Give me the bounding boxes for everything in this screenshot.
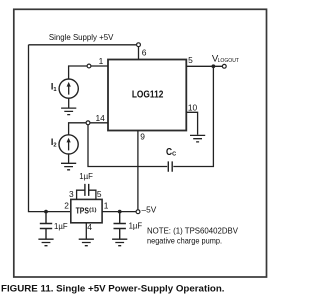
svg-text:1µF: 1µF (129, 221, 143, 230)
wire pin 6 (138, 47, 140, 60)
current source I1 (51, 79, 78, 98)
op-amp U1 LOG112 (108, 60, 186, 131)
svg-text:1: 1 (99, 56, 104, 66)
svg-text:3: 3 (69, 189, 74, 199)
node junction right cap (118, 210, 122, 214)
capacitor C2 1uF left (40, 214, 68, 239)
svg-text:NOTE: (1) TPS60402DBV: NOTE: (1) TPS60402DBV (147, 226, 239, 235)
wire top supply rail (29, 44, 137, 46)
svg-text:LOGOUT: LOGOUT (218, 58, 240, 64)
svg-text:5: 5 (188, 55, 193, 65)
ground pin 10 (190, 135, 205, 142)
terminal Vlogout (222, 64, 226, 68)
ground C2 (38, 239, 53, 246)
svg-text:LOG112: LOG112 (132, 90, 164, 101)
svg-text:TPS: TPS (76, 206, 90, 215)
node junction left cap (44, 210, 48, 214)
ground TPS pin 4 (79, 239, 94, 246)
wire TPS pin 3 stub (77, 190, 85, 199)
transistor U2 TPS charge pump box (71, 199, 102, 222)
figure frame (14, 9, 267, 277)
svg-text:–5V: –5V (142, 205, 157, 215)
caption (0, 276, 273, 295)
svg-text:negative charge pump.: negative charge pump. (147, 237, 222, 246)
pin 14 terminal (86, 121, 90, 125)
svg-text:14: 14 (96, 113, 106, 123)
wire pin 14 node down to Cc (88, 125, 167, 167)
ground I1 (61, 108, 76, 115)
svg-text:2: 2 (53, 143, 56, 149)
svg-text:9: 9 (140, 131, 145, 141)
wire pin 9 to -5V (137, 131, 139, 210)
capacitor Cc (166, 147, 176, 172)
svg-text:1: 1 (104, 200, 109, 210)
ground I2 (61, 163, 76, 170)
wire pin 1 to I1 (69, 66, 88, 79)
pin 1 terminal (87, 64, 91, 68)
node junction Vlogout (212, 64, 216, 68)
wire pin 14 to I2 (69, 123, 87, 135)
svg-text:1: 1 (53, 87, 57, 93)
svg-text:4: 4 (87, 222, 92, 232)
svg-text:(1): (1) (89, 208, 97, 214)
svg-text:10: 10 (188, 102, 198, 112)
wire pin 5 output (186, 65, 222, 67)
wire TPS pin 1 to -5V (102, 211, 136, 213)
svg-text:Single Supply +5V: Single Supply +5V (49, 33, 114, 42)
wire pin 1 (91, 65, 108, 67)
svg-text:5: 5 (97, 189, 102, 199)
wire TPS pin 4 (85, 223, 87, 239)
svg-text:1µF: 1µF (79, 172, 93, 181)
svg-text:1µF: 1µF (54, 222, 68, 231)
wire I1 to ground (68, 98, 70, 108)
svg-text:6: 6 (142, 47, 147, 57)
svg-text:FIGURE 11. Single +5V Power-Su: FIGURE 11. Single +5V Power-Supply Opera… (1, 283, 225, 293)
current source I2 (51, 135, 78, 154)
note text (147, 226, 239, 245)
wire I2 to ground (68, 154, 70, 163)
capacitor C3 1uF right (114, 214, 143, 239)
wire pin 14 (90, 122, 108, 124)
pin 6 terminal (137, 43, 141, 47)
node Vlogout label (212, 54, 240, 65)
ground C3 (112, 239, 127, 246)
wire pin 10 (186, 112, 197, 134)
wire Cc to Vlogout rail (173, 66, 213, 166)
wire left rail (29, 45, 71, 212)
svg-text:2: 2 (64, 200, 69, 210)
wire TPS pin 5 stub (89, 190, 96, 199)
svg-text:C: C (172, 151, 176, 157)
capacitor C1 1uF flying (79, 172, 93, 196)
terminal -5V (136, 210, 140, 214)
